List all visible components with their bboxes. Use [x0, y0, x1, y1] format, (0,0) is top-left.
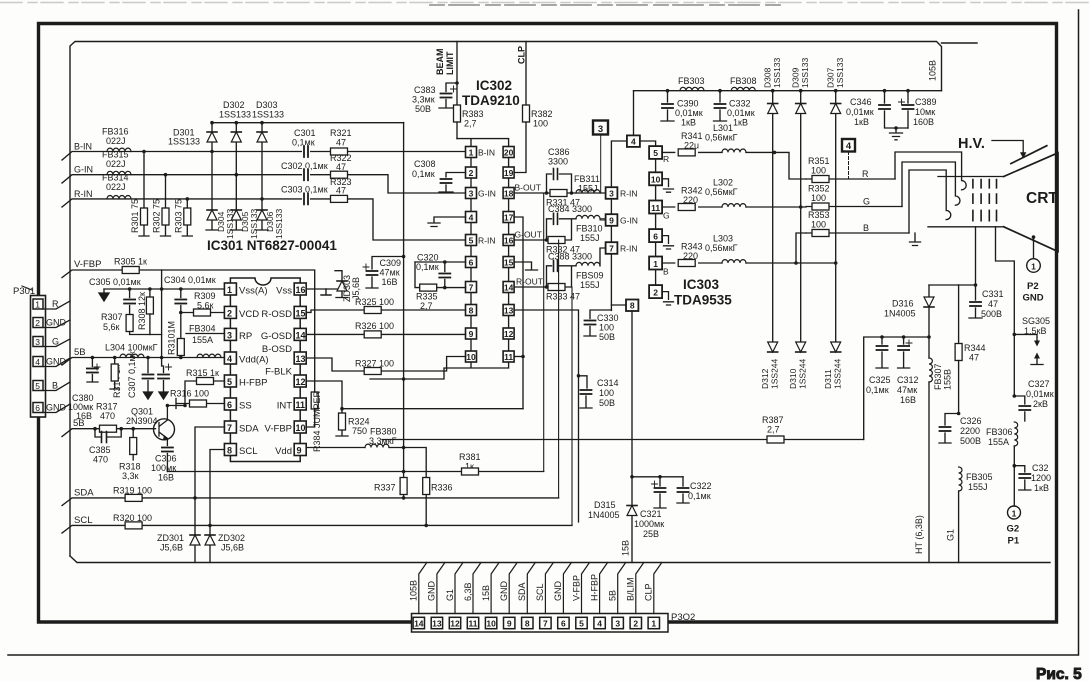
svg-text:022J: 022J — [106, 136, 126, 146]
svg-text:FB303: FB303 — [678, 76, 705, 86]
wire G-OSD row — [306, 333, 465, 335]
wire BEAM LIMIT — [435, 42, 459, 106]
svg-text:C386: C386 — [548, 147, 570, 157]
resistor R322 47 — [330, 153, 352, 178]
svg-text:R317: R317 — [96, 402, 118, 412]
svg-text:12: 12 — [450, 619, 460, 629]
svg-text:2кВ: 2кВ — [1033, 399, 1048, 409]
IC303 pin 2 — [649, 285, 673, 305]
wire 5B row upper — [62, 347, 224, 365]
capacitor C304 0,01mk — [164, 275, 216, 313]
svg-text:C309: C309 — [380, 258, 402, 268]
svg-text:ZD302: ZD302 — [218, 533, 245, 543]
ground at pin 4 — [428, 217, 466, 227]
svg-text:5: 5 — [579, 619, 584, 629]
svg-text:C307 0,1мк: C307 0,1мк — [127, 351, 137, 398]
svg-text:500В: 500В — [960, 436, 981, 446]
svg-text:R-IN: R-IN — [620, 244, 637, 254]
svg-text:G: G — [663, 211, 670, 221]
svg-text:022J: 022J — [106, 182, 126, 192]
inductor L303 0,56mkG — [705, 234, 746, 264]
resistor R302 75 — [152, 173, 171, 236]
svg-text:SCL: SCL — [239, 446, 257, 457]
svg-text:0,01мк: 0,01мк — [727, 108, 755, 118]
transistor Q301 2N3904 — [126, 406, 175, 446]
svg-text:R302 75: R302 75 — [152, 199, 162, 233]
svg-text:47: 47 — [336, 186, 346, 196]
svg-text:6: 6 — [469, 257, 474, 267]
svg-text:47: 47 — [988, 299, 998, 309]
IC302 pin 3 — [466, 188, 477, 199]
svg-text:100: 100 — [599, 388, 614, 398]
svg-text:1: 1 — [1031, 261, 1036, 271]
P302 pin 10 (15B) — [481, 563, 499, 629]
wire long 5B vertical — [403, 123, 405, 479]
svg-text:R-OSD: R-OSD — [261, 309, 292, 320]
svg-text:4: 4 — [227, 354, 232, 364]
svg-text:0,1мк: 0,1мк — [416, 262, 439, 272]
resistor R320 100 — [113, 513, 152, 529]
IC302 pin 6 — [466, 257, 477, 268]
svg-text:14: 14 — [296, 330, 306, 340]
ferrite bead FB308 — [730, 76, 757, 91]
svg-text:R318: R318 — [119, 462, 141, 472]
capacitor C326 2200 500V — [939, 412, 982, 446]
svg-text:47: 47 — [336, 138, 346, 148]
terminal P2 GND — [1023, 259, 1044, 304]
svg-text:FB305: FB305 — [966, 472, 993, 482]
svg-text:8: 8 — [469, 305, 474, 315]
svg-text:1: 1 — [227, 285, 232, 295]
connector P302 — [409, 563, 696, 633]
CRT socket dashed pins — [973, 180, 997, 221]
svg-text:D312: D312 — [760, 368, 770, 389]
IC302 pin 18 — [503, 188, 514, 199]
svg-text:4: 4 — [469, 212, 474, 222]
svg-text:D302: D302 — [223, 100, 245, 110]
svg-text:4: 4 — [597, 619, 602, 629]
svg-text:3: 3 — [227, 330, 232, 340]
svg-text:H-FBP: H-FBP — [239, 378, 268, 389]
IC303 pin 1 — [649, 257, 669, 277]
wire heater right to G2 chain — [996, 227, 1015, 396]
svg-text:3: 3 — [609, 189, 614, 199]
wire D316 C331 row — [929, 283, 977, 287]
svg-text:R321: R321 — [330, 128, 352, 138]
svg-text:15: 15 — [296, 308, 306, 318]
svg-text:G1: G1 — [946, 529, 956, 541]
svg-text:P1: P1 — [1008, 536, 1020, 547]
resistor R335 2,7 — [415, 262, 466, 311]
P302 pin 12 (G1) — [445, 563, 463, 629]
svg-text:L304 100мкГ: L304 100мкГ — [105, 343, 158, 353]
svg-text:ZD301: ZD301 — [157, 533, 184, 543]
svg-text:C332: C332 — [729, 99, 751, 109]
P302 pin 11 (6,3B) — [463, 563, 481, 629]
svg-text:9: 9 — [507, 619, 512, 629]
svg-text:0,01мк: 0,01мк — [675, 108, 703, 118]
svg-text:R-IN: R-IN — [620, 189, 637, 199]
svg-text:FB304: FB304 — [189, 324, 216, 334]
svg-text:R: R — [862, 169, 869, 179]
svg-text:C331: C331 — [982, 289, 1004, 299]
svg-text:FB310: FB310 — [576, 224, 603, 234]
svg-text:GND: GND — [499, 581, 509, 602]
wire IC303 right chain — [640, 141, 656, 285]
svg-text:F-BLK: F-BLK — [265, 367, 293, 378]
resistor R333 47 — [546, 284, 580, 302]
svg-text:L301: L301 — [713, 123, 733, 133]
wire R to CRT socket — [895, 152, 966, 190]
IC302 pin 5 — [466, 235, 477, 246]
svg-text:C304 0,01мк: C304 0,01мк — [164, 275, 216, 285]
svg-text:B-IN: B-IN — [74, 142, 92, 152]
svg-text:FB316: FB316 — [102, 127, 129, 137]
wire IC302 right trunk — [508, 158, 510, 352]
wire R387 rail — [382, 439, 864, 441]
inner schematic frame — [70, 42, 942, 557]
connector P301 — [13, 286, 46, 417]
IC302 pin 10 — [466, 351, 477, 362]
svg-text:11: 11 — [651, 203, 660, 213]
svg-text:1SS244: 1SS244 — [798, 358, 808, 389]
svg-text:R353: R353 — [808, 210, 830, 220]
svg-text:100: 100 — [811, 193, 826, 203]
svg-text:9: 9 — [609, 216, 614, 226]
svg-text:R324: R324 — [348, 417, 370, 427]
svg-text:R336: R336 — [431, 483, 453, 493]
svg-text:1кВ: 1кВ — [1034, 483, 1049, 493]
IC302 pin 12 — [503, 328, 514, 339]
wire R381 row — [167, 471, 543, 473]
P302 pin 1 (CLP) — [644, 563, 662, 629]
CRT neck lines — [928, 177, 1004, 227]
ferrite bead FB315 022J — [102, 150, 131, 175]
svg-text:R308 12к: R308 12к — [137, 292, 147, 330]
svg-text:R343: R343 — [681, 242, 703, 252]
svg-text:0,01мк: 0,01мк — [1026, 389, 1054, 399]
svg-text:C385: C385 — [89, 445, 111, 455]
svg-text:G-IN: G-IN — [478, 189, 496, 199]
svg-text:C301: C301 — [294, 128, 316, 138]
capacitor C307 0,1mk — [127, 351, 154, 399]
svg-text:0,1мк: 0,1мк — [412, 169, 435, 179]
wire R-OUT row — [514, 266, 576, 289]
svg-text:155A: 155A — [988, 437, 1009, 447]
svg-text:10: 10 — [296, 423, 306, 433]
wire SDA stub to pin7 — [193, 427, 224, 500]
resistor R387 2,7 — [762, 415, 784, 443]
terminal G2 P1 — [1007, 466, 1021, 547]
IC301 pin 15 R-OSD — [261, 306, 306, 320]
svg-text:R387: R387 — [762, 415, 784, 425]
resistor R326 100 — [355, 321, 394, 338]
svg-text:2: 2 — [469, 168, 474, 178]
wire B to CRT socket — [909, 170, 951, 233]
resistor R319 100 — [113, 486, 152, 502]
svg-text:105B: 105B — [928, 60, 938, 81]
svg-text:C326: C326 — [960, 416, 982, 426]
svg-text:D316: D316 — [892, 299, 914, 309]
svg-text:100: 100 — [811, 220, 826, 230]
capacitor C305 0,01mk — [89, 277, 224, 316]
svg-text:C322: C322 — [690, 481, 712, 491]
IC301 pin 13 B-OSD — [262, 344, 306, 364]
svg-text:5: 5 — [227, 377, 232, 387]
svg-text:7: 7 — [609, 244, 614, 254]
capacitor C389 10mk 160V — [899, 91, 937, 128]
svg-text:155A: 155A — [192, 335, 213, 345]
svg-text:R326 100: R326 100 — [355, 321, 394, 331]
wire IC302 top bus — [457, 139, 509, 147]
svg-text:CRT: CRT — [1026, 190, 1058, 207]
svg-text:R352: R352 — [808, 184, 830, 194]
svg-text:100: 100 — [599, 323, 614, 333]
wire 15B drop D315 — [588, 311, 637, 563]
inductor L302 0,56mkG — [705, 178, 746, 208]
IC302 pin 2 — [466, 167, 477, 178]
svg-text:CLP: CLP — [644, 583, 654, 601]
svg-text:GND: GND — [553, 581, 563, 602]
IC303 pin 5 — [649, 146, 669, 164]
ferrite bead FB304 155A — [189, 324, 221, 358]
svg-text:155J: 155J — [580, 233, 600, 243]
IC301 body — [230, 278, 300, 462]
IC301 pin 3 RP — [224, 328, 252, 342]
svg-text:C32: C32 — [1032, 463, 1049, 473]
svg-text:0,56мкГ: 0,56мкГ — [705, 187, 738, 197]
svg-text:7: 7 — [543, 619, 548, 629]
inductor L301 0,56mkG — [705, 123, 746, 152]
svg-text:100: 100 — [533, 119, 548, 129]
svg-text:1: 1 — [1012, 508, 1017, 518]
capacitor C331 47 500V — [969, 285, 1004, 319]
svg-text:FB314: FB314 — [102, 173, 129, 183]
wire IC302 left trunk — [470, 158, 472, 352]
wire 5B row lower — [62, 418, 156, 437]
IC301 pin 1 Vss(A) — [224, 283, 267, 297]
svg-text:12: 12 — [296, 377, 306, 387]
svg-text:13: 13 — [432, 619, 442, 629]
IC301 pin 5 H-FBP — [224, 375, 267, 389]
IC301 pin 4 Vdd(A) — [224, 352, 268, 366]
svg-text:8: 8 — [227, 446, 232, 456]
svg-text:1SS133: 1SS133 — [835, 57, 845, 88]
svg-text:8: 8 — [525, 619, 530, 629]
P301 pin wires R GND G GND B GND — [43, 299, 70, 413]
svg-text:0,56мкГ: 0,56мкГ — [705, 133, 738, 143]
resistor R308 12k — [137, 289, 153, 335]
svg-text:0,01мк: 0,01мк — [846, 107, 874, 117]
capacitor C327 0,01mk 2kV — [1013, 379, 1054, 421]
svg-text:B-OUT: B-OUT — [515, 183, 541, 193]
svg-text:1: 1 — [651, 619, 656, 629]
svg-text:0,1мк: 0,1мк — [688, 491, 711, 501]
capacitor C346 0,01mk 1kV — [846, 91, 908, 128]
svg-text:C312: C312 — [897, 375, 919, 385]
wire B-IN row — [62, 142, 466, 161]
svg-text:15: 15 — [504, 257, 514, 267]
svg-text:D303: D303 — [256, 100, 278, 110]
capacitor C380 100mk 16V — [68, 358, 100, 422]
svg-text:1SS244: 1SS244 — [833, 358, 843, 389]
svg-text:18: 18 — [504, 188, 514, 198]
diode D304 1SS133 — [206, 152, 235, 240]
P302 pin 2 (B/LIM) — [626, 563, 644, 629]
resistor R384 JUMPER — [311, 390, 322, 452]
svg-text:FB315: FB315 — [102, 150, 129, 160]
wire SCL row — [62, 515, 572, 533]
svg-text:1SS133: 1SS133 — [225, 208, 235, 239]
wire IC303 left rail — [611, 141, 627, 311]
ferrite bead FB309 155J — [576, 248, 606, 290]
ferrite bead FB316 022J — [102, 127, 131, 152]
IC302 pin 14 — [503, 282, 514, 293]
svg-text:R342: R342 — [681, 186, 703, 196]
resistor R303 75 — [173, 197, 192, 236]
svg-text:6: 6 — [561, 619, 566, 629]
svg-text:155J: 155J — [968, 482, 988, 492]
svg-text:155B: 155B — [943, 369, 953, 390]
svg-text:FB311: FB311 — [574, 174, 600, 184]
svg-text:14: 14 — [504, 282, 514, 292]
svg-text:SS: SS — [239, 401, 252, 412]
ferrite bead FB310 155J — [576, 215, 606, 243]
IC301 pin 11 INT — [277, 398, 307, 412]
svg-text:11: 11 — [296, 400, 306, 410]
svg-text:R337: R337 — [374, 483, 396, 493]
svg-text:B: B — [663, 267, 669, 277]
svg-text:3: 3 — [469, 188, 474, 198]
svg-text:Vss: Vss — [276, 286, 292, 297]
svg-text:13: 13 — [504, 305, 514, 315]
resistor R321 47 — [330, 128, 352, 155]
wire B row out — [662, 233, 837, 265]
diode D306 1SS133 — [256, 199, 284, 239]
svg-text:BEAM: BEAM — [435, 49, 445, 76]
svg-text:1SS133: 1SS133 — [168, 137, 200, 147]
svg-text:47: 47 — [969, 353, 979, 363]
svg-text:Q301: Q301 — [131, 407, 153, 417]
svg-text:47мк: 47мк — [897, 385, 917, 395]
svg-text:12: 12 — [504, 329, 514, 339]
resistor R318 3,3k — [119, 429, 141, 481]
svg-text:0,56мкГ: 0,56мкГ — [705, 243, 738, 253]
svg-text:11: 11 — [504, 352, 513, 362]
svg-text:1SS133: 1SS133 — [274, 208, 284, 239]
resistor R307 5,6k — [101, 312, 162, 335]
svg-text:CLP: CLP — [517, 46, 527, 64]
capacitor C385 470 — [89, 429, 121, 465]
svg-text:50В: 50В — [599, 398, 615, 408]
IC303 pin 7 — [606, 242, 638, 254]
svg-text:C330: C330 — [597, 313, 619, 323]
resistor R301 75 — [130, 150, 149, 236]
capacitor C314 100 50V — [577, 374, 619, 408]
svg-text:1SS244: 1SS244 — [770, 358, 780, 389]
P302 pin 14 (105B) — [409, 563, 427, 629]
inductor L304 100mkG — [105, 343, 158, 358]
svg-text:P2: P2 — [1027, 281, 1039, 292]
svg-text:5B: 5B — [73, 418, 85, 429]
svg-text:Vdd(A): Vdd(A) — [239, 355, 269, 366]
svg-text:J5,6В: J5,6В — [160, 543, 183, 553]
wire G-IN row — [62, 165, 466, 193]
CRT funnel — [1004, 153, 1059, 252]
svg-text:G1: G1 — [445, 589, 455, 601]
resistor R337 — [374, 470, 407, 500]
svg-text:6: 6 — [227, 400, 232, 410]
P301 pin 2 — [33, 318, 43, 329]
svg-text:47: 47 — [336, 162, 346, 172]
svg-text:R315 1к: R315 1к — [186, 368, 219, 378]
capacitor C312 47mk 16V — [897, 337, 919, 405]
svg-text:6: 6 — [653, 231, 658, 241]
svg-text:1200: 1200 — [1031, 473, 1051, 483]
svg-text:H.V.: H.V. — [958, 136, 985, 152]
svg-text:C388 3300: C388 3300 — [548, 252, 592, 262]
wire SS row with terminal — [176, 399, 224, 409]
svg-text:5: 5 — [35, 381, 40, 391]
IC301 pin 14 G-OSD — [261, 328, 306, 342]
capacitor on Vss drop — [158, 358, 172, 400]
wire G row out — [662, 205, 806, 209]
diode D308 1SS133 — [763, 57, 783, 152]
resistor R331 47 — [546, 190, 580, 208]
svg-text:1SS133: 1SS133 — [252, 110, 284, 120]
svg-text:4: 4 — [631, 137, 636, 147]
svg-text:L303: L303 — [713, 234, 733, 244]
wire V-FBP row — [62, 259, 315, 427]
svg-text:1SS133: 1SS133 — [219, 110, 251, 120]
svg-text:2200: 2200 — [960, 426, 980, 436]
svg-text:INT: INT — [277, 401, 293, 412]
svg-text:C346: C346 — [850, 97, 872, 107]
diode D301 1SS133 — [168, 121, 217, 153]
svg-text:2: 2 — [653, 287, 658, 297]
node 3 — [593, 121, 608, 194]
svg-text:C384 3300: C384 3300 — [548, 204, 592, 214]
capacitor C306 100mk 16V — [151, 448, 177, 483]
IC302 pin 11 — [503, 351, 514, 362]
P302 pin 4 (H-FBP) — [589, 563, 607, 629]
IC303 pin 6 — [649, 229, 673, 249]
ferrite bead FB305 155J — [959, 467, 993, 563]
IC301 pin 8 SCL — [224, 444, 257, 458]
wire Vss pin16 to ground — [306, 289, 340, 295]
svg-text:FB380: FB380 — [370, 427, 397, 437]
svg-text:IC301 NT6827-00041: IC301 NT6827-00041 — [207, 238, 337, 253]
capacitor C32 1200 1kV — [1013, 463, 1052, 493]
ground below C346 C389 — [890, 128, 903, 140]
capacitor C309 47mk 16V — [363, 255, 405, 288]
svg-text:1000мк: 1000мк — [634, 519, 664, 529]
wire pin13 down — [514, 310, 578, 522]
resistor R310 1M — [167, 313, 185, 358]
ferrite bead FB307 155B — [929, 337, 953, 563]
capacitor C386 3300 — [547, 147, 572, 193]
svg-text:16В: 16В — [900, 395, 916, 405]
svg-text:1кВ: 1кВ — [854, 117, 869, 127]
capacitor C383 3,3mk 50V — [412, 83, 457, 114]
wire H-FBP row — [185, 381, 224, 406]
wire SCL stub to pin8 — [208, 450, 224, 528]
svg-text:1кВ: 1кВ — [733, 118, 748, 128]
svg-text:470: 470 — [93, 455, 108, 465]
IC303 pin 10 — [649, 172, 673, 192]
resistor R341 22u — [678, 131, 702, 156]
wire F-BLK row to 408 rail — [306, 381, 523, 411]
